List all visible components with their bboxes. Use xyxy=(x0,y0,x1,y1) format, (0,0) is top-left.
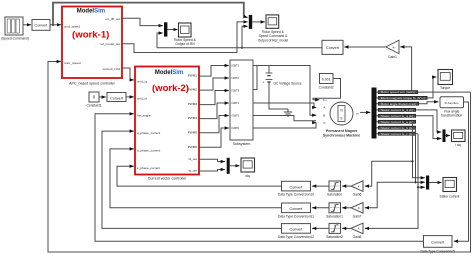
svg-text:current_cmd: current_cmd xyxy=(103,67,120,71)
svg-text:fun_angle: fun_angle xyxy=(137,114,151,118)
wire is_d to idq mux xyxy=(416,110,441,132)
junction is_c branch xyxy=(417,186,419,188)
wire err_dif_out to mux1 xyxy=(122,18,163,25)
svg-text:<Stator current is_q (A)>: <Stator current is_q (A)> xyxy=(379,115,416,118)
svg-text:Torque: Torque xyxy=(440,86,450,90)
svg-text:Saturation: Saturation xyxy=(327,193,342,197)
svg-text:<Rotor angle thetam (rad)>: <Rotor angle thetam (rad)> xyxy=(379,103,419,106)
wire battery to ground xyxy=(269,94,288,109)
svg-text:id_out: id_out xyxy=(189,157,198,161)
svg-text:D-function: D-function xyxy=(445,101,459,105)
svg-text:Synchronous Machine: Synchronous Machine xyxy=(323,134,360,138)
svg-text:Data Type Conversion5: Data Type Conversion5 xyxy=(420,249,455,253)
svg-text:Gain7: Gain7 xyxy=(353,214,362,218)
scope1 Rotor Speed & Output of RN xyxy=(174,23,196,46)
wire machine m to bus selector xyxy=(360,111,370,113)
wire is_a down to stator mux xyxy=(413,122,425,178)
mux1 xyxy=(164,22,167,36)
svg-text:(work-1): (work-1) xyxy=(72,30,109,41)
svg-text:IGBT4: IGBT4 xyxy=(232,101,240,105)
svg-text:IGBT2: IGBT2 xyxy=(232,76,240,80)
svg-text:B: B xyxy=(323,113,325,117)
svg-text:Current vector controller: Current vector controller xyxy=(148,177,187,181)
wire is_c down to stator mux xyxy=(418,134,425,188)
junction is_a branch xyxy=(411,160,413,162)
wire mux2 to scope2 xyxy=(252,21,265,23)
svg-text:IGBT6: IGBT6 xyxy=(232,126,240,130)
junction is_b branch xyxy=(414,181,416,183)
wire PWM5 to IGBT5 xyxy=(199,116,229,133)
svg-text:DC Voltage Source: DC Voltage Source xyxy=(274,81,302,85)
svg-text:PWM4: PWM4 xyxy=(188,116,198,120)
wire b_phase feedback xyxy=(110,149,282,208)
svg-text:+: + xyxy=(263,81,265,85)
signal label Rotor speed wm xyxy=(377,90,471,94)
gain Gain6 xyxy=(351,181,363,197)
wire c_phase feedback xyxy=(117,166,282,186)
wire is_b down to stator mux xyxy=(416,128,425,183)
wire DC+ rail to machine B xyxy=(253,66,316,116)
signal label Stator current is_q xyxy=(377,114,417,118)
wire a_phase feedback xyxy=(102,131,282,228)
svg-text:PWM1: PWM1 xyxy=(188,74,198,78)
wire signal builder to Convert1 xyxy=(23,24,31,26)
wire Gain8 to Saturation2 xyxy=(342,227,351,229)
svg-text:idq: idq xyxy=(245,174,250,178)
wire Te to Torque scope xyxy=(428,77,437,98)
scope Stator current xyxy=(440,178,460,199)
svg-text:transformation: transformation xyxy=(441,114,462,118)
DC voltage source battery xyxy=(263,66,302,95)
junction rotor speed line xyxy=(241,47,243,49)
svg-text:i dq: i dq xyxy=(455,143,460,147)
svg-text:iq_out: iq_out xyxy=(189,169,198,173)
svg-text:Gain6: Gain6 xyxy=(353,193,362,197)
wire PWM3 to IGBT3 xyxy=(199,91,229,105)
wire PWM6 to IGBT6 xyxy=(199,128,229,147)
svg-text:IGBT5: IGBT5 xyxy=(232,114,240,118)
wire fun_angle feedback xyxy=(95,114,424,241)
svg-text:Output of Ref_model: Output of Ref_model xyxy=(258,38,289,42)
svg-text:<Rotor speed wm (rad/s)>: <Rotor speed wm (rad/s)> xyxy=(379,91,418,94)
mux3 idq xyxy=(227,158,230,174)
svg-text:a_phase_current: a_phase_current xyxy=(137,131,160,135)
data type conversion Convert12 xyxy=(278,224,314,239)
svg-text:IGBT1: IGBT1 xyxy=(232,64,240,68)
wire is_c branch to Gain8 xyxy=(365,187,418,228)
wire subsystem phase step xyxy=(253,116,316,121)
wire id_out to mux3 xyxy=(199,159,225,161)
svg-text:Data Type Conversion11: Data Type Conversion11 xyxy=(278,214,314,218)
svg-text:ref_model_out: ref_model_out xyxy=(100,42,120,46)
svg-text:ModelSim.: ModelSim. xyxy=(155,70,184,76)
gain Gain1 xyxy=(386,40,399,59)
wire DC loop left xyxy=(253,66,257,90)
permanent magnet synchronous machine xyxy=(323,98,361,138)
wire speed command branch to top xyxy=(53,3,244,25)
svg-text:cmd_speed: cmd_speed xyxy=(64,25,80,29)
subsystem inverter xyxy=(230,60,253,146)
wire PWM4 to IGBT4 xyxy=(199,103,229,119)
ModelSim block work-2 (Current vector controller) xyxy=(135,67,199,181)
svg-text:Subsystem: Subsystem xyxy=(233,142,251,146)
svg-text:cmd_id: cmd_id xyxy=(137,97,147,101)
wire Gain7 to Saturation1 xyxy=(342,207,351,209)
svg-text:Convert: Convert xyxy=(290,185,303,189)
signal label Rotor angle xyxy=(377,102,421,106)
svg-text:Stator current: Stator current xyxy=(440,195,460,199)
svg-text:<Stator current is_b (A)>: <Stator current is_b (A)> xyxy=(379,127,416,130)
wire is_q to idq mux xyxy=(416,116,441,139)
svg-text:rotor_speed: rotor_speed xyxy=(64,61,81,65)
svg-text:(Speed Command): (Speed Command) xyxy=(1,37,29,41)
wire Constant2 to Tm xyxy=(313,79,341,100)
wire subsystem to machine C xyxy=(253,123,316,128)
svg-text:cmd_iq: cmd_iq xyxy=(137,80,147,84)
wire Convert3 to cmd_id xyxy=(126,96,134,98)
wire mux3 to scope idq xyxy=(230,165,240,167)
svg-text:Tm: Tm xyxy=(323,98,328,102)
wire mux to idq scope xyxy=(446,135,451,137)
svg-text:Convert: Convert xyxy=(290,228,303,232)
svg-text:-K-: -K- xyxy=(392,45,396,49)
wire rotor speed riser to mux2 xyxy=(242,26,248,48)
wire is_b branch to Gain7 xyxy=(365,182,416,208)
svg-text:PWM5: PWM5 xyxy=(188,130,198,134)
svg-text:-K-: -K- xyxy=(357,227,361,231)
wire mux1 to scope1 xyxy=(167,29,177,31)
wire Constant1 to Convert3 xyxy=(99,96,106,98)
gain Gain8 xyxy=(351,223,363,239)
wire PWM1 to IGBT1 xyxy=(199,66,229,77)
svg-text:err_dif_out: err_dif_out xyxy=(105,17,120,21)
scope idq xyxy=(241,158,255,178)
wire Saturation1 to Convert11 xyxy=(312,207,329,209)
svg-text:Saturation2: Saturation2 xyxy=(326,235,343,239)
wire D-function to Convert5 xyxy=(454,102,469,241)
wire rotor speed riser to mux1 xyxy=(157,33,163,48)
svg-text:Convert: Convert xyxy=(290,207,303,211)
data type conversion Convert11 xyxy=(278,203,314,218)
wire PWM2 to IGBT2 xyxy=(199,78,229,90)
wire Saturation to Convert10 xyxy=(312,185,329,187)
signal label Stator current is_c xyxy=(377,132,419,136)
saturation Saturation xyxy=(327,181,342,197)
data type conversion Convert5 xyxy=(420,236,455,254)
svg-text:<Electromagnetic torque Te (N*: <Electromagnetic torque Te (N*m)> xyxy=(379,97,427,100)
svg-text:<Stator current is_d (A)>: <Stator current is_d (A)> xyxy=(379,109,416,112)
wire Convert1 to work-1 cmd_speed xyxy=(50,24,61,26)
svg-text:b_phase_current: b_phase_current xyxy=(137,149,160,153)
D-function block xyxy=(440,97,464,118)
svg-text:c_phase_current: c_phase_current xyxy=(137,166,160,170)
saturation Saturation1 xyxy=(326,203,343,219)
svg-text:0.001: 0.001 xyxy=(322,77,331,81)
signal label Stator current is_a xyxy=(377,120,417,124)
svg-text:IGBT3: IGBT3 xyxy=(232,89,240,93)
svg-text:Constant1: Constant1 xyxy=(86,104,101,108)
wire wm riser to Gain1 xyxy=(400,47,411,92)
wire iq_out to mux3 xyxy=(199,170,225,172)
wire rotor_speed feedback xyxy=(48,62,471,253)
svg-text:PWM3: PWM3 xyxy=(188,102,198,106)
svg-text:Convert: Convert xyxy=(35,23,48,27)
wire mux to stator current scope xyxy=(429,182,441,184)
ground xyxy=(284,109,292,116)
svg-text:m: m xyxy=(356,112,359,116)
svg-text:Convert: Convert xyxy=(326,46,339,50)
svg-text:-K-: -K- xyxy=(357,206,361,210)
svg-text:Gain1: Gain1 xyxy=(388,55,397,59)
svg-text:Permanent Magnet: Permanent Magnet xyxy=(326,129,358,133)
signal label Stator current is_b xyxy=(377,126,417,130)
wire Gain6 to Saturation xyxy=(342,185,351,187)
mux stator current xyxy=(426,176,429,190)
signal label Stator current is_d xyxy=(377,108,417,112)
junction cmd_speed branch xyxy=(52,24,54,26)
svg-text:Constant2: Constant2 xyxy=(319,86,334,90)
signal label Electromagnetic torque xyxy=(377,96,428,100)
svg-text:-K-: -K- xyxy=(357,184,361,188)
mux2 xyxy=(249,15,252,29)
svg-text:Output of RN: Output of RN xyxy=(175,42,195,46)
ModelSim block work-1 (APC based speed controller) xyxy=(62,7,122,86)
svg-text:<Stator current is_c (A)>: <Stator current is_c (A)> xyxy=(379,133,416,136)
constant Constant2 0.001 xyxy=(319,74,334,90)
wire current_cmd to cmd_iq xyxy=(122,68,134,80)
data type conversion Convert10 xyxy=(278,181,314,196)
svg-text:Data Type Conversion12: Data Type Conversion12 xyxy=(278,235,314,239)
signal builder (Speed Command) xyxy=(1,17,29,41)
saturation Saturation2 xyxy=(326,223,343,239)
svg-text:PWM2: PWM2 xyxy=(188,88,198,92)
gain Gain7 xyxy=(351,203,363,219)
wire Gain1 to Convert2 xyxy=(344,46,385,48)
svg-text:APC_based speed controller: APC_based speed controller xyxy=(69,82,116,86)
data type conversion Convert1 xyxy=(32,20,50,31)
scope Torque xyxy=(438,70,453,91)
wire rotor angle to D-function xyxy=(420,102,438,104)
bus selector xyxy=(372,88,377,139)
svg-text:ModelSim.: ModelSim. xyxy=(77,8,106,14)
data type conversion Convert3 xyxy=(107,93,126,102)
svg-text:Data Type Conversion10: Data Type Conversion10 xyxy=(278,193,314,197)
svg-text:Convert: Convert xyxy=(110,96,123,100)
svg-text:S: S xyxy=(340,117,342,121)
wire rotor speed main line from Convert2 xyxy=(157,47,322,49)
svg-text:Saturation1: Saturation1 xyxy=(326,214,343,218)
svg-text:(work-2): (work-2) xyxy=(152,83,189,94)
svg-text:Gain8: Gain8 xyxy=(353,235,362,239)
wire ref_model_out routing xyxy=(122,22,248,53)
mux idq right xyxy=(443,129,446,142)
wire is_a branch to Gain6 xyxy=(365,161,413,186)
constant Constant1 xyxy=(86,92,101,108)
svg-text:Convert: Convert xyxy=(431,240,444,244)
svg-text:<Stator current is_a (A)>: <Stator current is_a (A)> xyxy=(379,121,416,124)
scope2 Rotor Speed & Speed Command & Output of Ref_model xyxy=(258,15,289,43)
scope i dq xyxy=(452,130,466,147)
wire Saturation2 to Convert12 xyxy=(312,227,329,229)
svg-text:PWM6: PWM6 xyxy=(188,145,198,149)
data type conversion Convert2 (top right) xyxy=(322,40,343,54)
wire subsystem to machine A xyxy=(253,103,316,107)
